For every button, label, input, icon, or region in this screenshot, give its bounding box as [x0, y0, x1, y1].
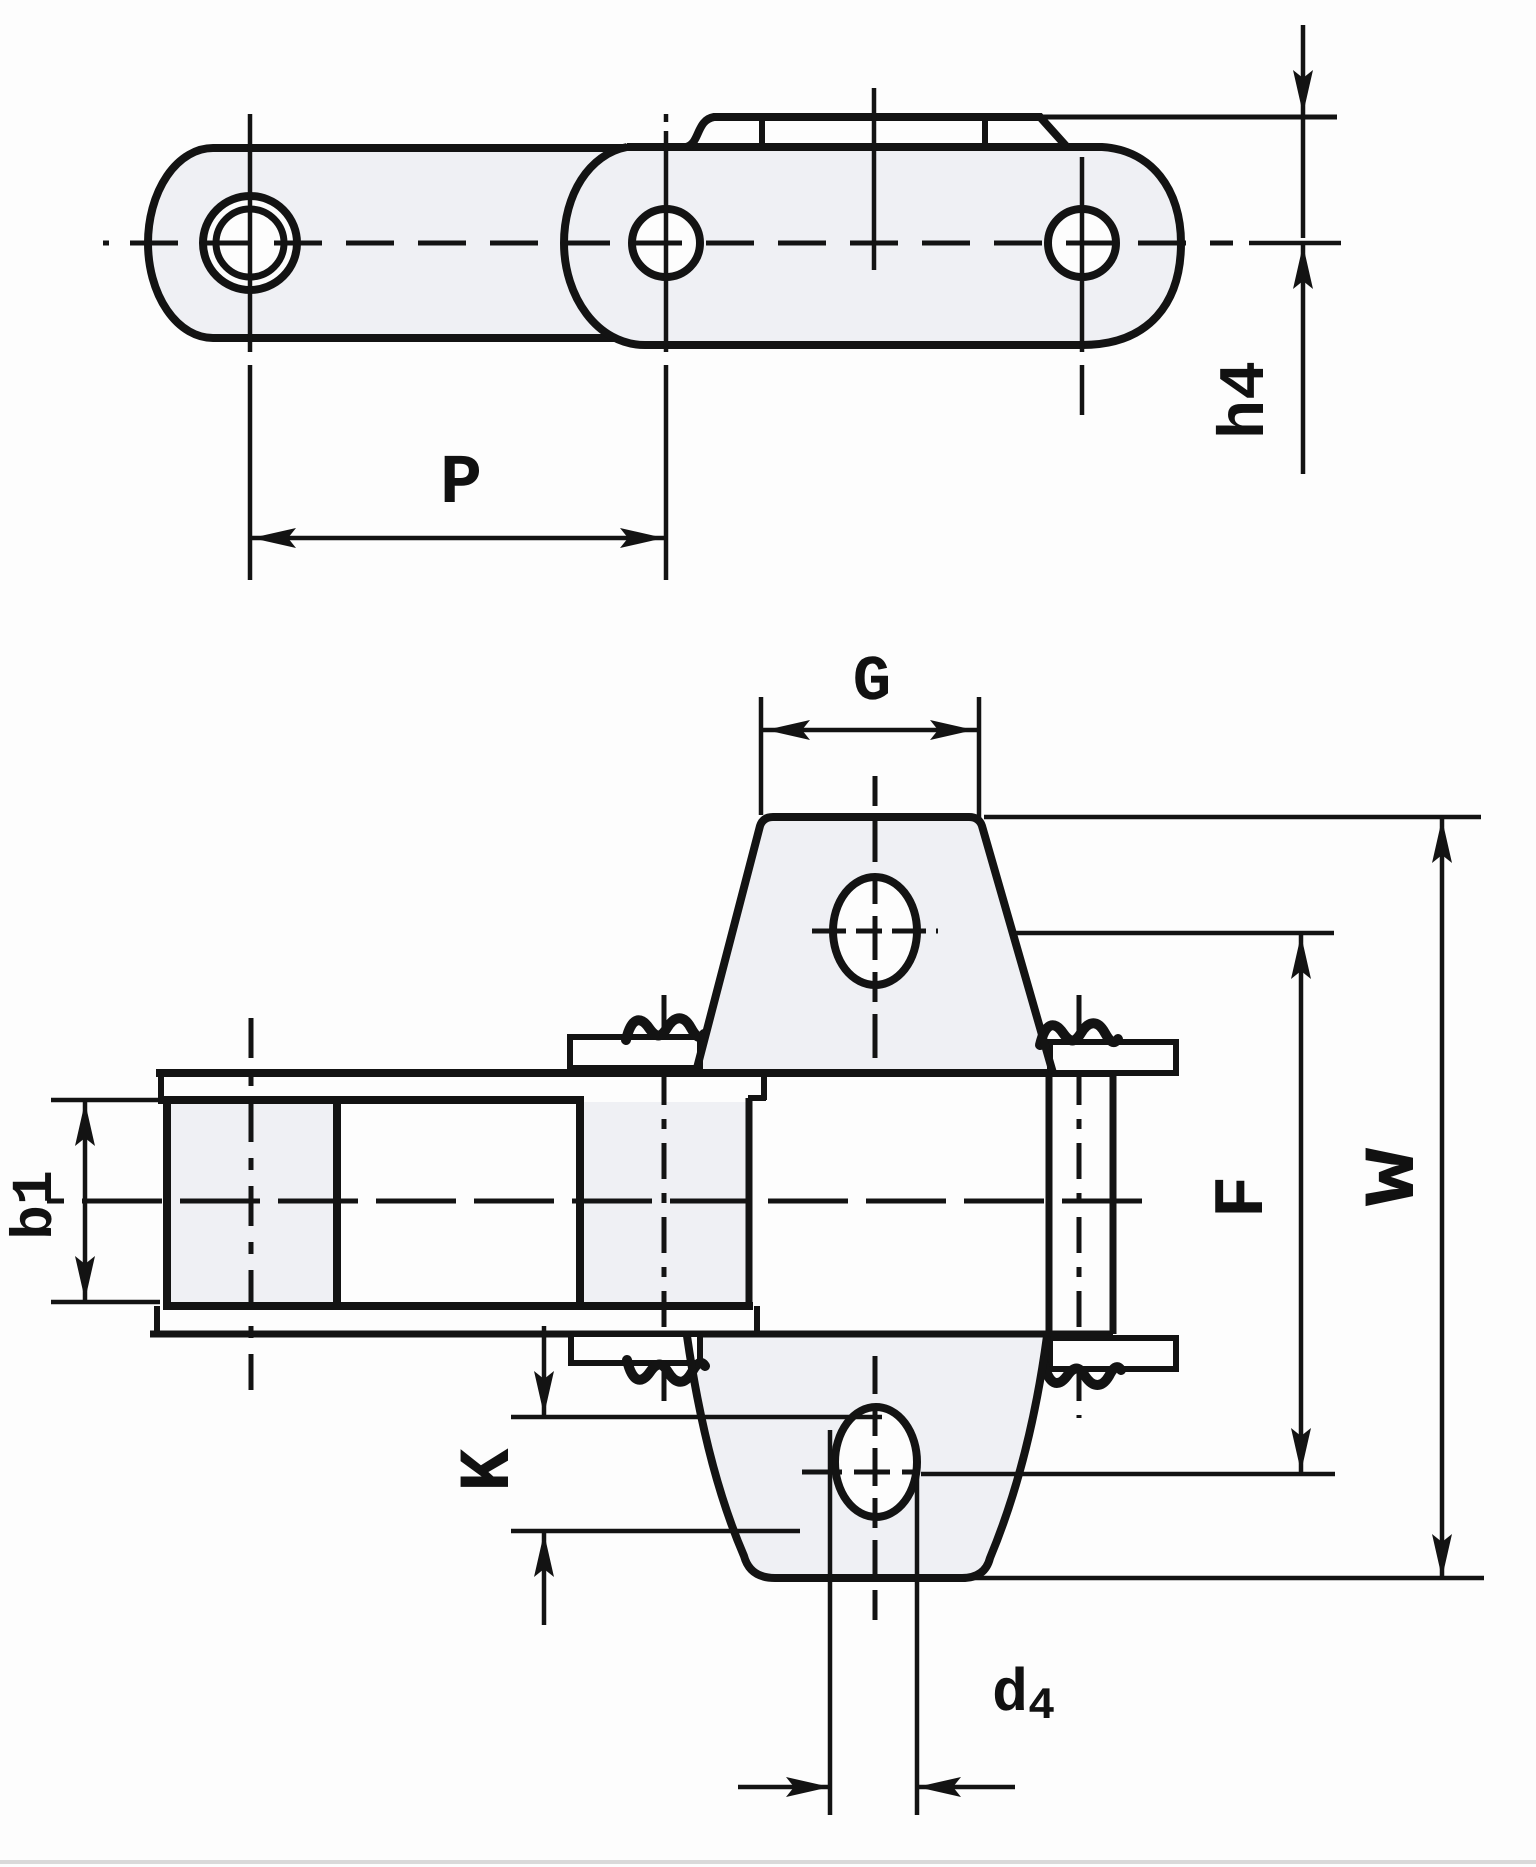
- pin hole H3: [1048, 209, 1116, 277]
- top hole horizontal centerline: [812, 929, 938, 934]
- dimension b1 arrow down: [75, 1256, 95, 1300]
- dimension W top reference: [984, 815, 1481, 820]
- dimension G extension right: [977, 697, 982, 818]
- tab bend tick 1: [759, 120, 765, 145]
- attachment centerline (top view): [872, 88, 877, 270]
- top left lug plate (flange): [570, 1037, 700, 1068]
- dimension W bottom reference: [968, 1576, 1484, 1581]
- dimension G arrow right: [930, 720, 974, 740]
- right roller section (fill): [584, 1102, 749, 1304]
- dimension d4 extension right: [915, 1458, 920, 1815]
- dimension F line: [1299, 935, 1304, 1472]
- dimension W line: [1440, 819, 1445, 1578]
- svg-text:K: K: [448, 1448, 530, 1492]
- vertical centerline of hole H2 / P extension: [664, 114, 669, 580]
- right lug hole centerline: [1077, 995, 1082, 1418]
- svg-text:F: F: [1204, 1176, 1284, 1219]
- top left bent tab wave: [626, 1018, 704, 1040]
- dimension d4 arrow left-pointing: [917, 1777, 961, 1797]
- dimension F top reference: [1010, 931, 1334, 936]
- h4 reference extension line (tab top): [1040, 115, 1337, 120]
- bottom right bent tab wave: [1044, 1364, 1121, 1385]
- dimension F bottom reference: [921, 1472, 1335, 1477]
- top attachment vertical centerline: [873, 776, 878, 1062]
- svg-text:W: W: [1353, 1147, 1435, 1206]
- bottom attachment vertical centerline: [873, 1356, 878, 1620]
- chain inner link plate L1 (outline): [148, 148, 652, 338]
- inner top nub right: [748, 1073, 766, 1100]
- right outer plate edge: [1110, 1073, 1117, 1334]
- dimension G arrow left: [766, 720, 810, 740]
- dimension F arrow down: [1291, 1428, 1311, 1472]
- left lug hole centerline: [662, 995, 667, 1418]
- dimension d4 line left: [738, 1785, 830, 1790]
- dimension K extension lower: [511, 1529, 800, 1534]
- inner top edge thin (b1 extension): [51, 1098, 160, 1103]
- bottom hole horizontal centerline: [802, 1470, 920, 1475]
- roller section left edge: [163, 1096, 171, 1310]
- roller section (fill): [167, 1100, 337, 1306]
- svg-text:G: G: [853, 647, 891, 719]
- dimension d4 arrow right-pointing: [786, 1777, 830, 1797]
- top attachment plate (outline): [697, 817, 1053, 1073]
- chain outer link plate L2 (fill): [564, 147, 1181, 345]
- main horizontal centerline (front view): [47, 1199, 64, 1204]
- outer plate top edge: [156, 1069, 1113, 1077]
- attachment tab edge (bent lug, edge view) on L2: [686, 117, 1067, 147]
- inner bottom edge: [165, 1302, 753, 1310]
- dimension G extension left: [759, 697, 764, 815]
- dimension P arrow left: [252, 528, 296, 548]
- vertical centerline of hole H3: [1080, 157, 1085, 415]
- pin hole H1 inner circle: [216, 209, 284, 277]
- svg-text:b1: b1: [4, 1170, 69, 1240]
- dimension d4 line right: [917, 1785, 1015, 1790]
- dimension b1 line: [83, 1102, 88, 1300]
- inner plate edge: [746, 1098, 753, 1306]
- bottom attachment hole (oval): [835, 1407, 917, 1517]
- bushing edge: [576, 1096, 584, 1310]
- main centerline dashes: [82, 1199, 1157, 1204]
- dimension h4 line lower: [1301, 245, 1306, 474]
- bottom right step: [754, 1306, 760, 1334]
- top right bent tab wave: [1040, 1023, 1118, 1045]
- bottom attachment plate (fill): [687, 1333, 1047, 1578]
- dimension P line: [252, 536, 664, 541]
- bottom attachment plate (outline): [687, 1336, 1047, 1578]
- dimension h4 line upper: [1301, 25, 1306, 238]
- bottom left bent tab wave: [627, 1360, 705, 1382]
- bottom left lug plate (flange): [571, 1334, 700, 1363]
- dimension W arrow down: [1432, 1534, 1452, 1578]
- chain inner link plate L1 (fill): [148, 148, 655, 338]
- inner top edge: [158, 1096, 580, 1104]
- dimension G line: [763, 728, 977, 733]
- dimension K extension upper: [511, 1415, 882, 1420]
- tab bend tick 2: [982, 120, 988, 145]
- left top step: [158, 1073, 164, 1100]
- pin hole H2: [632, 209, 700, 277]
- horizontal centerline (top view): [103, 241, 1233, 246]
- outer plate bottom edge: [150, 1331, 1113, 1338]
- roller section right edge: [333, 1096, 341, 1310]
- top right lug plate (flange): [1050, 1042, 1176, 1073]
- centerline reference segment for h4: [1249, 241, 1341, 246]
- dimension h4 arrow down: [1293, 70, 1313, 114]
- roller centerline vertical: [249, 1018, 254, 1390]
- dimension F arrow up: [1291, 935, 1311, 979]
- dimension K arrow down: [534, 1371, 554, 1415]
- chain outer link plate L2 (outline): [564, 147, 1181, 345]
- bottom page rule: [0, 1860, 1536, 1864]
- svg-text:h4: h4: [1209, 361, 1283, 439]
- dimension b1 arrow up: [75, 1102, 95, 1146]
- top attachment hole (oval): [833, 877, 917, 985]
- top attachment plate (fill): [697, 817, 1053, 1075]
- dimension K arrow up: [534, 1533, 554, 1577]
- vertical centerline of hole H1 / P extension: [248, 114, 253, 580]
- inner bottom edge thin (b1 extension): [51, 1300, 160, 1305]
- dimension K line upper: [542, 1326, 547, 1415]
- dimension d4 extension left: [828, 1430, 833, 1815]
- bottom right lug plate (flange): [1050, 1338, 1176, 1369]
- dimension P arrow right: [620, 528, 664, 548]
- dimension K line lower: [542, 1533, 547, 1625]
- svg-text:d4: d4: [992, 1661, 1055, 1732]
- left bottom step: [154, 1306, 160, 1334]
- svg-text:P: P: [440, 445, 482, 524]
- right inner plate edge: [1046, 1073, 1053, 1334]
- dimension W arrow up: [1432, 819, 1452, 863]
- pin hole H1 outer circle: [203, 196, 297, 290]
- dimension h4 arrow up: [1293, 245, 1313, 289]
